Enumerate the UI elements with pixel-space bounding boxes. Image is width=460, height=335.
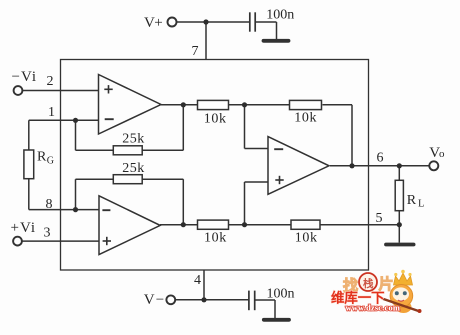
svg-text:+: +	[154, 15, 162, 31]
svg-text:8: 8	[46, 197, 53, 212]
svg-text:10k: 10k	[295, 230, 318, 245]
svg-text:10k: 10k	[294, 111, 317, 126]
svg-text:5: 5	[376, 211, 383, 226]
svg-text:栈: 栈	[363, 277, 374, 290]
svg-text:R: R	[37, 150, 47, 165]
svg-text:100n: 100n	[267, 287, 295, 302]
svg-text:R: R	[407, 193, 417, 208]
svg-text:V: V	[144, 292, 155, 308]
svg-text:25k: 25k	[122, 161, 145, 176]
svg-text:−: −	[156, 292, 164, 308]
svg-text:o: o	[439, 148, 445, 160]
svg-text:L: L	[418, 198, 424, 209]
svg-text:7: 7	[192, 44, 199, 59]
svg-text:2: 2	[47, 74, 54, 89]
svg-text:G: G	[47, 156, 54, 167]
svg-text:−Vi: −Vi	[12, 69, 38, 85]
svg-text:25k: 25k	[122, 132, 145, 147]
svg-text:6: 6	[377, 150, 384, 165]
svg-text:1: 1	[48, 105, 55, 120]
svg-text:100n: 100n	[266, 8, 294, 23]
svg-text:10k: 10k	[204, 231, 227, 246]
svg-text:+Vi: +Vi	[11, 220, 37, 236]
svg-text:4: 4	[194, 273, 201, 288]
svg-text:10k: 10k	[204, 111, 227, 126]
svg-text:3: 3	[44, 225, 51, 240]
svg-text:www.dzsc.com: www.dzsc.com	[346, 303, 401, 312]
